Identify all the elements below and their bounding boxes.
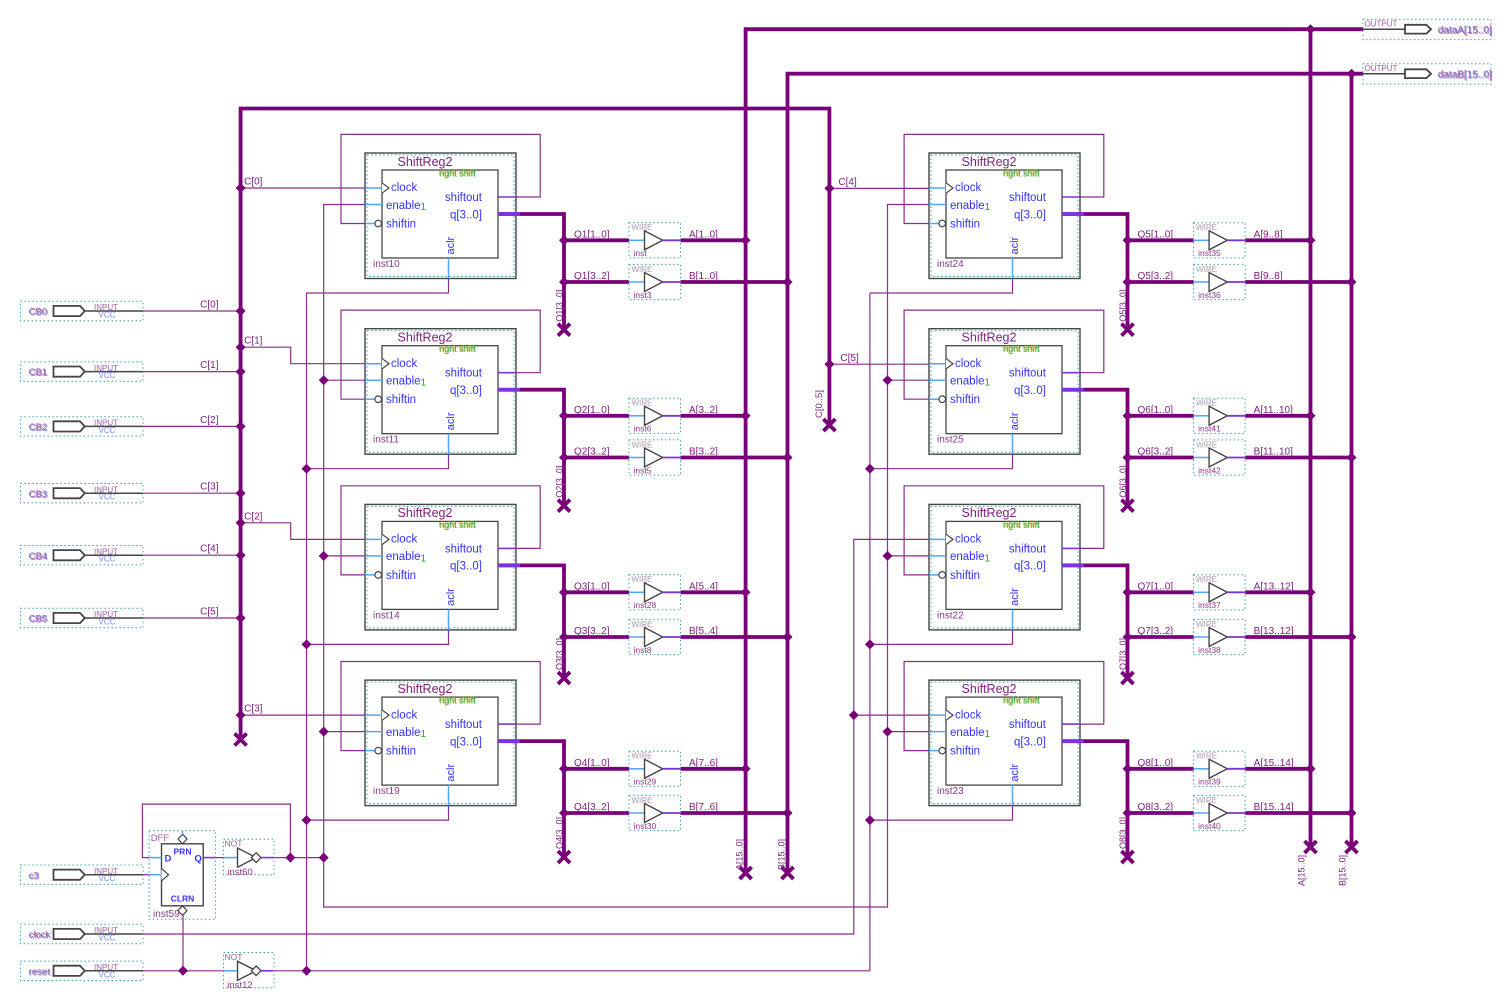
svg-text:Q2[1..0]: Q2[1..0] xyxy=(574,405,610,416)
svg-text:B[5..4]: B[5..4] xyxy=(689,626,718,637)
svg-text:1: 1 xyxy=(421,729,427,740)
svg-text:Q8[3..2]: Q8[3..2] xyxy=(1138,802,1174,813)
svg-text:inst29: inst29 xyxy=(634,777,657,787)
svg-text:shiftout: shiftout xyxy=(445,192,483,204)
svg-text:Q3[3..2]: Q3[3..2] xyxy=(574,626,610,637)
svg-text:C[0]: C[0] xyxy=(244,177,263,188)
svg-text:WIRE: WIRE xyxy=(1196,223,1217,232)
svg-text:Q8[1..0]: Q8[1..0] xyxy=(1138,758,1174,769)
svg-text:Q3[3..0]: Q3[3..0] xyxy=(555,638,565,670)
svg-text:B[15..0]: B[15..0] xyxy=(777,839,787,870)
svg-text:q[3..0]: q[3..0] xyxy=(450,385,482,397)
svg-text:B[1..0]: B[1..0] xyxy=(689,271,718,282)
svg-text:A[9..8]: A[9..8] xyxy=(1254,229,1283,240)
svg-text:inst22: inst22 xyxy=(937,610,964,621)
svg-text:Q2[3..0]: Q2[3..0] xyxy=(555,466,565,498)
svg-text:shiftin: shiftin xyxy=(950,570,980,582)
svg-text:WIRE: WIRE xyxy=(1196,399,1217,408)
svg-text:WIRE: WIRE xyxy=(632,752,653,761)
svg-text:CB5: CB5 xyxy=(29,614,47,625)
svg-text:inst24: inst24 xyxy=(937,259,964,270)
svg-text:Q4[3..2]: Q4[3..2] xyxy=(574,802,610,813)
svg-text:q[3..0]: q[3..0] xyxy=(450,561,482,573)
svg-text:inst3: inst3 xyxy=(634,290,652,300)
svg-text:aclr: aclr xyxy=(445,236,457,254)
svg-text:inst37: inst37 xyxy=(1198,600,1221,610)
svg-text:dataA[15..0]: dataA[15..0] xyxy=(1438,25,1492,36)
svg-text:aclr: aclr xyxy=(445,764,457,782)
svg-text:right shift: right shift xyxy=(1003,696,1040,706)
svg-text:inst: inst xyxy=(634,248,648,258)
svg-text:WIRE: WIRE xyxy=(632,223,653,232)
svg-text:CB0: CB0 xyxy=(29,307,47,318)
svg-text:enable: enable xyxy=(950,727,985,739)
svg-text:Q8[3..0]: Q8[3..0] xyxy=(1118,817,1128,849)
svg-text:inst42: inst42 xyxy=(1198,465,1221,475)
svg-text:ShiftReg2: ShiftReg2 xyxy=(398,506,453,520)
svg-text:Q: Q xyxy=(195,853,202,864)
svg-text:WIRE: WIRE xyxy=(1196,752,1217,761)
svg-text:1: 1 xyxy=(421,553,427,564)
svg-text:shiftout: shiftout xyxy=(1009,192,1047,204)
svg-text:NOT: NOT xyxy=(225,952,243,962)
svg-text:1: 1 xyxy=(421,202,427,213)
svg-text:C[3]: C[3] xyxy=(244,704,263,715)
svg-text:enable: enable xyxy=(950,200,985,212)
svg-text:CB3: CB3 xyxy=(29,489,47,500)
svg-text:VCC: VCC xyxy=(99,426,116,435)
svg-text:reset: reset xyxy=(29,966,50,977)
svg-text:Q6[3..0]: Q6[3..0] xyxy=(1118,466,1128,498)
svg-text:1: 1 xyxy=(421,378,427,389)
svg-text:shiftout: shiftout xyxy=(1009,368,1047,380)
svg-text:ShiftReg2: ShiftReg2 xyxy=(962,331,1017,345)
svg-text:WIRE: WIRE xyxy=(1196,620,1217,629)
svg-text:clock: clock xyxy=(29,930,51,941)
svg-text:C[4]: C[4] xyxy=(838,177,857,188)
svg-text:ShiftReg2: ShiftReg2 xyxy=(962,155,1017,169)
svg-text:ShiftReg2: ShiftReg2 xyxy=(962,506,1017,520)
svg-text:1: 1 xyxy=(985,202,991,213)
svg-text:shiftout: shiftout xyxy=(445,719,483,731)
svg-text:right shift: right shift xyxy=(1003,169,1040,179)
svg-text:Q5[3..2]: Q5[3..2] xyxy=(1138,271,1174,282)
svg-text:q[3..0]: q[3..0] xyxy=(450,209,482,221)
svg-text:inst60: inst60 xyxy=(227,867,252,878)
svg-text:q[3..0]: q[3..0] xyxy=(1014,561,1046,573)
svg-text:right shift: right shift xyxy=(1003,344,1040,354)
svg-text:A[7..6]: A[7..6] xyxy=(689,758,718,769)
svg-text:inst5: inst5 xyxy=(634,465,652,475)
svg-text:VCC: VCC xyxy=(99,934,116,943)
svg-text:shiftin: shiftin xyxy=(950,394,980,406)
svg-text:A[15..0]: A[15..0] xyxy=(1297,855,1307,886)
svg-text:inst40: inst40 xyxy=(1198,821,1221,831)
svg-text:inst10: inst10 xyxy=(373,259,400,270)
svg-text:VCC: VCC xyxy=(99,970,116,979)
svg-text:aclr: aclr xyxy=(1009,764,1021,782)
svg-text:right shift: right shift xyxy=(1003,520,1040,530)
svg-text:inst41: inst41 xyxy=(1198,424,1221,434)
svg-text:A[15..14]: A[15..14] xyxy=(1254,758,1294,769)
svg-text:Q5[1..0]: Q5[1..0] xyxy=(1138,229,1174,240)
svg-text:inst28: inst28 xyxy=(634,600,657,610)
svg-text:B[9..8]: B[9..8] xyxy=(1254,271,1283,282)
svg-text:shiftin: shiftin xyxy=(386,570,416,582)
svg-text:C[5]: C[5] xyxy=(200,607,219,618)
svg-text:shiftin: shiftin xyxy=(386,746,416,758)
svg-text:Q7[1..0]: Q7[1..0] xyxy=(1138,581,1174,592)
svg-text:C[2]: C[2] xyxy=(200,415,219,426)
svg-text:clock: clock xyxy=(391,709,417,721)
svg-text:WIRE: WIRE xyxy=(632,399,653,408)
svg-text:C[0..5]: C[0..5] xyxy=(814,390,825,418)
svg-text:inst25: inst25 xyxy=(937,435,964,446)
svg-text:CB4: CB4 xyxy=(29,551,47,562)
svg-text:q[3..0]: q[3..0] xyxy=(1014,209,1046,221)
svg-text:aclr: aclr xyxy=(445,412,457,430)
svg-text:enable: enable xyxy=(386,376,421,388)
svg-text:PRN: PRN xyxy=(174,847,192,857)
svg-text:B[15..0]: B[15..0] xyxy=(1338,855,1348,886)
svg-text:right shift: right shift xyxy=(439,520,476,530)
svg-text:Q6[3..2]: Q6[3..2] xyxy=(1138,447,1174,458)
svg-text:inst8: inst8 xyxy=(634,645,652,655)
svg-text:Q7[3..2]: Q7[3..2] xyxy=(1138,626,1174,637)
svg-text:VCC: VCC xyxy=(99,311,116,320)
svg-text:C[4]: C[4] xyxy=(200,544,219,555)
svg-text:ShiftReg2: ShiftReg2 xyxy=(398,331,453,345)
svg-text:A[11..10]: A[11..10] xyxy=(1254,405,1294,416)
svg-text:enable: enable xyxy=(386,727,421,739)
svg-text:clock: clock xyxy=(955,358,981,370)
svg-text:shiftin: shiftin xyxy=(386,219,416,231)
svg-text:Q4[3..0]: Q4[3..0] xyxy=(555,817,565,849)
svg-text:WIRE: WIRE xyxy=(1196,575,1217,584)
svg-text:WIRE: WIRE xyxy=(1196,440,1217,449)
svg-text:enable: enable xyxy=(386,551,421,563)
svg-text:B[11..10]: B[11..10] xyxy=(1254,447,1294,458)
svg-text:q[3..0]: q[3..0] xyxy=(1014,736,1046,748)
svg-text:1: 1 xyxy=(985,553,991,564)
svg-text:Q2[3..2]: Q2[3..2] xyxy=(574,447,610,458)
svg-text:shiftout: shiftout xyxy=(445,543,483,555)
svg-text:inst38: inst38 xyxy=(1198,645,1221,655)
svg-text:NOT: NOT xyxy=(225,839,243,849)
svg-text:A[15..0]: A[15..0] xyxy=(735,839,745,870)
svg-text:shiftout: shiftout xyxy=(1009,543,1047,555)
svg-text:Q7[3..0]: Q7[3..0] xyxy=(1118,638,1128,670)
svg-text:C[5]: C[5] xyxy=(840,353,859,364)
svg-text:aclr: aclr xyxy=(445,588,457,606)
svg-text:Q1[3..2]: Q1[3..2] xyxy=(574,271,610,282)
svg-text:shiftin: shiftin xyxy=(386,394,416,406)
svg-text:WIRE: WIRE xyxy=(1196,265,1217,274)
svg-text:clock: clock xyxy=(955,534,981,546)
svg-text:enable: enable xyxy=(950,376,985,388)
svg-text:q[3..0]: q[3..0] xyxy=(1014,385,1046,397)
svg-text:C[1]: C[1] xyxy=(200,360,219,371)
svg-text:OUTPUT: OUTPUT xyxy=(1365,64,1398,73)
svg-text:A[13..12]: A[13..12] xyxy=(1254,581,1294,592)
svg-text:Q4[1..0]: Q4[1..0] xyxy=(574,758,610,769)
svg-text:Q5[3..0]: Q5[3..0] xyxy=(1118,290,1128,322)
svg-text:CB2: CB2 xyxy=(29,422,47,433)
svg-text:B[13..12]: B[13..12] xyxy=(1254,626,1294,637)
svg-text:aclr: aclr xyxy=(1009,412,1021,430)
svg-text:enable: enable xyxy=(950,551,985,563)
svg-text:shiftout: shiftout xyxy=(445,368,483,380)
svg-text:A[5..4]: A[5..4] xyxy=(689,581,718,592)
svg-text:inst35: inst35 xyxy=(1198,248,1221,258)
svg-text:inst12: inst12 xyxy=(227,980,252,991)
svg-text:1: 1 xyxy=(985,729,991,740)
svg-text:c3: c3 xyxy=(29,870,39,881)
svg-text:C[1]: C[1] xyxy=(244,336,263,347)
svg-text:inst59: inst59 xyxy=(153,909,180,920)
svg-text:aclr: aclr xyxy=(1009,588,1021,606)
svg-text:WIRE: WIRE xyxy=(1196,796,1217,805)
svg-text:WIRE: WIRE xyxy=(632,620,653,629)
svg-text:DFF: DFF xyxy=(151,833,170,844)
svg-text:shiftout: shiftout xyxy=(1009,719,1047,731)
svg-text:CB1: CB1 xyxy=(29,367,47,378)
svg-text:inst11: inst11 xyxy=(373,435,399,446)
svg-text:VCC: VCC xyxy=(99,874,116,883)
svg-text:VCC: VCC xyxy=(99,493,116,502)
svg-text:Q1[3..0]: Q1[3..0] xyxy=(555,290,565,322)
svg-text:WIRE: WIRE xyxy=(632,575,653,584)
svg-text:Q3[1..0]: Q3[1..0] xyxy=(574,581,610,592)
svg-text:shiftin: shiftin xyxy=(950,219,980,231)
svg-text:VCC: VCC xyxy=(99,618,116,627)
svg-text:WIRE: WIRE xyxy=(632,440,653,449)
svg-text:clock: clock xyxy=(391,182,417,194)
svg-text:inst19: inst19 xyxy=(373,786,400,797)
svg-text:ShiftReg2: ShiftReg2 xyxy=(962,682,1017,696)
svg-text:WIRE: WIRE xyxy=(632,265,653,274)
svg-text:1: 1 xyxy=(985,378,991,389)
svg-text:C[0]: C[0] xyxy=(200,300,219,311)
svg-text:ShiftReg2: ShiftReg2 xyxy=(398,155,453,169)
svg-text:VCC: VCC xyxy=(99,555,116,564)
svg-text:right shift: right shift xyxy=(439,169,476,179)
svg-text:B[7..6]: B[7..6] xyxy=(689,802,718,813)
svg-text:inst39: inst39 xyxy=(1198,777,1221,787)
svg-text:VCC: VCC xyxy=(99,371,116,380)
svg-text:inst36: inst36 xyxy=(1198,290,1221,300)
svg-text:inst6: inst6 xyxy=(634,424,652,434)
svg-text:Q1[1..0]: Q1[1..0] xyxy=(574,229,610,240)
svg-text:inst14: inst14 xyxy=(373,610,400,621)
svg-text:enable: enable xyxy=(386,200,421,212)
svg-text:B[3..2]: B[3..2] xyxy=(689,447,718,458)
svg-text:D: D xyxy=(165,853,172,864)
svg-text:B[15..14]: B[15..14] xyxy=(1254,802,1294,813)
svg-text:right shift: right shift xyxy=(439,696,476,706)
svg-text:OUTPUT: OUTPUT xyxy=(1365,20,1398,29)
svg-text:Q6[1..0]: Q6[1..0] xyxy=(1138,405,1174,416)
svg-text:clock: clock xyxy=(955,709,981,721)
svg-text:q[3..0]: q[3..0] xyxy=(450,736,482,748)
svg-text:CLRN: CLRN xyxy=(171,894,195,904)
svg-text:shiftin: shiftin xyxy=(950,746,980,758)
svg-text:inst30: inst30 xyxy=(634,821,657,831)
svg-text:inst23: inst23 xyxy=(937,786,964,797)
svg-text:right shift: right shift xyxy=(439,344,476,354)
svg-text:WIRE: WIRE xyxy=(632,796,653,805)
svg-text:aclr: aclr xyxy=(1009,236,1021,254)
svg-text:C[2]: C[2] xyxy=(244,511,263,522)
svg-text:clock: clock xyxy=(391,358,417,370)
svg-text:A[1..0]: A[1..0] xyxy=(689,229,718,240)
svg-text:ShiftReg2: ShiftReg2 xyxy=(398,682,453,696)
svg-text:dataB[15..0]: dataB[15..0] xyxy=(1438,69,1492,80)
svg-text:clock: clock xyxy=(955,182,981,194)
svg-text:clock: clock xyxy=(391,534,417,546)
svg-text:C[3]: C[3] xyxy=(200,482,219,493)
svg-text:A[3..2]: A[3..2] xyxy=(689,405,718,416)
